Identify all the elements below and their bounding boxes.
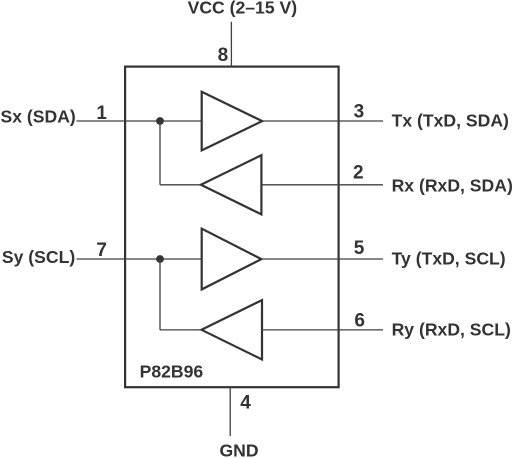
svg-text:GND: GND	[220, 441, 259, 458]
svg-text:Sx (SDA): Sx (SDA)	[1, 107, 76, 127]
svg-text:Ry (RxD, SCL): Ry (RxD, SCL)	[392, 319, 511, 339]
wire Ry buffer output to Sy node	[160, 329, 202, 331]
svg-text:P82B96: P82B96	[140, 362, 204, 382]
svg-text:6: 6	[354, 310, 365, 331]
pin 1 wire Sx to buffer input	[77, 120, 202, 122]
buffer A1 (Tx driver)	[202, 92, 263, 151]
svg-text:4: 4	[240, 393, 251, 414]
svg-text:Sy (SCL): Sy (SCL)	[2, 247, 75, 267]
svg-text:3: 3	[354, 101, 365, 122]
node junction Sx	[156, 117, 164, 125]
svg-text:7: 7	[96, 240, 107, 261]
wire Rx buffer output to Sx node	[160, 184, 201, 186]
wire Sy node down to Ry buffer output	[159, 259, 161, 330]
buffer A3 (Ty driver)	[202, 229, 262, 290]
svg-text:Ty (TxD, SCL): Ty (TxD, SCL)	[392, 248, 506, 268]
svg-text:5: 5	[354, 238, 365, 259]
buffer A2 (Rx receiver)	[201, 155, 262, 214]
IC body box U1	[125, 67, 339, 388]
buffer A4 (Ry receiver)	[202, 300, 263, 359]
svg-text:VCC (2–15 V): VCC (2–15 V)	[188, 0, 298, 17]
svg-text:Rx (RxD, SDA): Rx (RxD, SDA)	[392, 175, 512, 195]
svg-text:8: 8	[218, 45, 229, 66]
wire Sx node down to Rx buffer output	[159, 121, 161, 185]
pin 2 wire Rx to buffer input	[261, 184, 383, 186]
pin 8 wire (VCC)	[230, 22, 232, 67]
pin 7 wire Sy to buffer input	[77, 258, 202, 260]
pin 3 wire buffer output to Tx	[262, 120, 383, 122]
node junction Sy	[156, 255, 164, 263]
svg-text:Tx (TxD, SDA): Tx (TxD, SDA)	[392, 110, 509, 130]
pin 5 wire buffer output to Ty	[261, 258, 383, 260]
pin 6 wire Ry to buffer input	[262, 329, 383, 331]
svg-text:2: 2	[353, 163, 364, 184]
pin 4 wire (GND)	[229, 387, 231, 436]
